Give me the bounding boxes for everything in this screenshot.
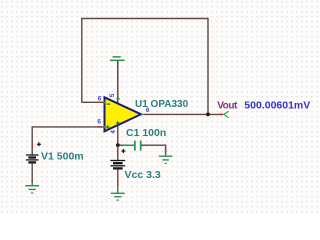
wire C1 to ground bbox=[142, 145, 166, 155]
svg-text:4: 4 bbox=[110, 130, 117, 134]
op-amp plus mark (supply) bbox=[116, 121, 120, 125]
svg-text:Vcc 3.3: Vcc 3.3 bbox=[125, 169, 161, 181]
ground at Vcc bbox=[111, 186, 125, 200]
battery V1 plus sign bbox=[37, 142, 41, 146]
pin segment red Vout bbox=[218, 113, 223, 115]
pin segment red V- bbox=[117, 140, 119, 144]
junction node V-/Vcc/C1 bbox=[116, 143, 120, 147]
wire junction to C1 bbox=[118, 144, 135, 146]
battery V1 bottom stem bbox=[31, 163, 33, 185]
ground at V1 bbox=[25, 182, 39, 193]
svg-text:U1 OPA330: U1 OPA330 bbox=[135, 99, 189, 110]
op-amp U1 triangle bbox=[105, 97, 142, 131]
svg-text:V1 500m: V1 500m bbox=[41, 151, 84, 163]
capacitor C1 plates bbox=[135, 141, 141, 151]
pin segment red Vcc bottom bbox=[117, 180, 119, 187]
connection tick output bbox=[142, 113, 144, 115]
pin segment red C1 ground bbox=[165, 148, 167, 153]
wire op-amp V- pin to junction bbox=[117, 124, 119, 145]
svg-text:C1 100n: C1 100n bbox=[126, 127, 166, 139]
svg-text:6: 6 bbox=[98, 96, 102, 103]
svg-text:Vout: Vout bbox=[217, 100, 238, 111]
op-amp minus mark bbox=[107, 103, 111, 105]
pin segment red V+ bbox=[117, 93, 119, 96]
op-amp plus mark (input) bbox=[106, 125, 110, 129]
pin segment red Vcc top bbox=[117, 149, 119, 155]
pin segment red V1 top bbox=[31, 143, 33, 148]
junction node output/feedback bbox=[206, 113, 210, 117]
pin segment red noninverting input bbox=[98, 126, 103, 128]
capacitor C1 pin right (green) bbox=[142, 144, 147, 146]
voltage pin Vout arrow bbox=[224, 111, 229, 117]
battery Vcc bottom stem bbox=[117, 169, 119, 193]
svg-text:6: 6 bbox=[97, 119, 101, 126]
wire output bbox=[141, 113, 224, 115]
connection tick V+ bbox=[116, 98, 120, 100]
wire inverting input bbox=[81, 101, 104, 103]
connection tick noninverting input bbox=[104, 126, 105, 128]
pin segment red inverting input bbox=[97, 101, 102, 103]
pin segment red V1 bottom bbox=[31, 179, 33, 184]
connection tick inverting input bbox=[104, 102, 105, 104]
svg-text:500.00601mV: 500.00601mV bbox=[244, 99, 310, 111]
wire noninverting input from V1 bbox=[32, 127, 104, 155]
battery V1 plates bbox=[26, 155, 39, 162]
battery Vcc stems bbox=[117, 145, 119, 160]
capacitor C1 pin left (green) bbox=[123, 144, 135, 146]
battery Vcc plates bbox=[110, 161, 125, 169]
wire feedback loop bbox=[82, 19, 208, 115]
ground at C1 bbox=[159, 152, 173, 164]
battery Vcc plus sign bbox=[121, 149, 125, 153]
power rail +V symbol bbox=[110, 57, 125, 104]
svg-text:5: 5 bbox=[109, 93, 116, 97]
